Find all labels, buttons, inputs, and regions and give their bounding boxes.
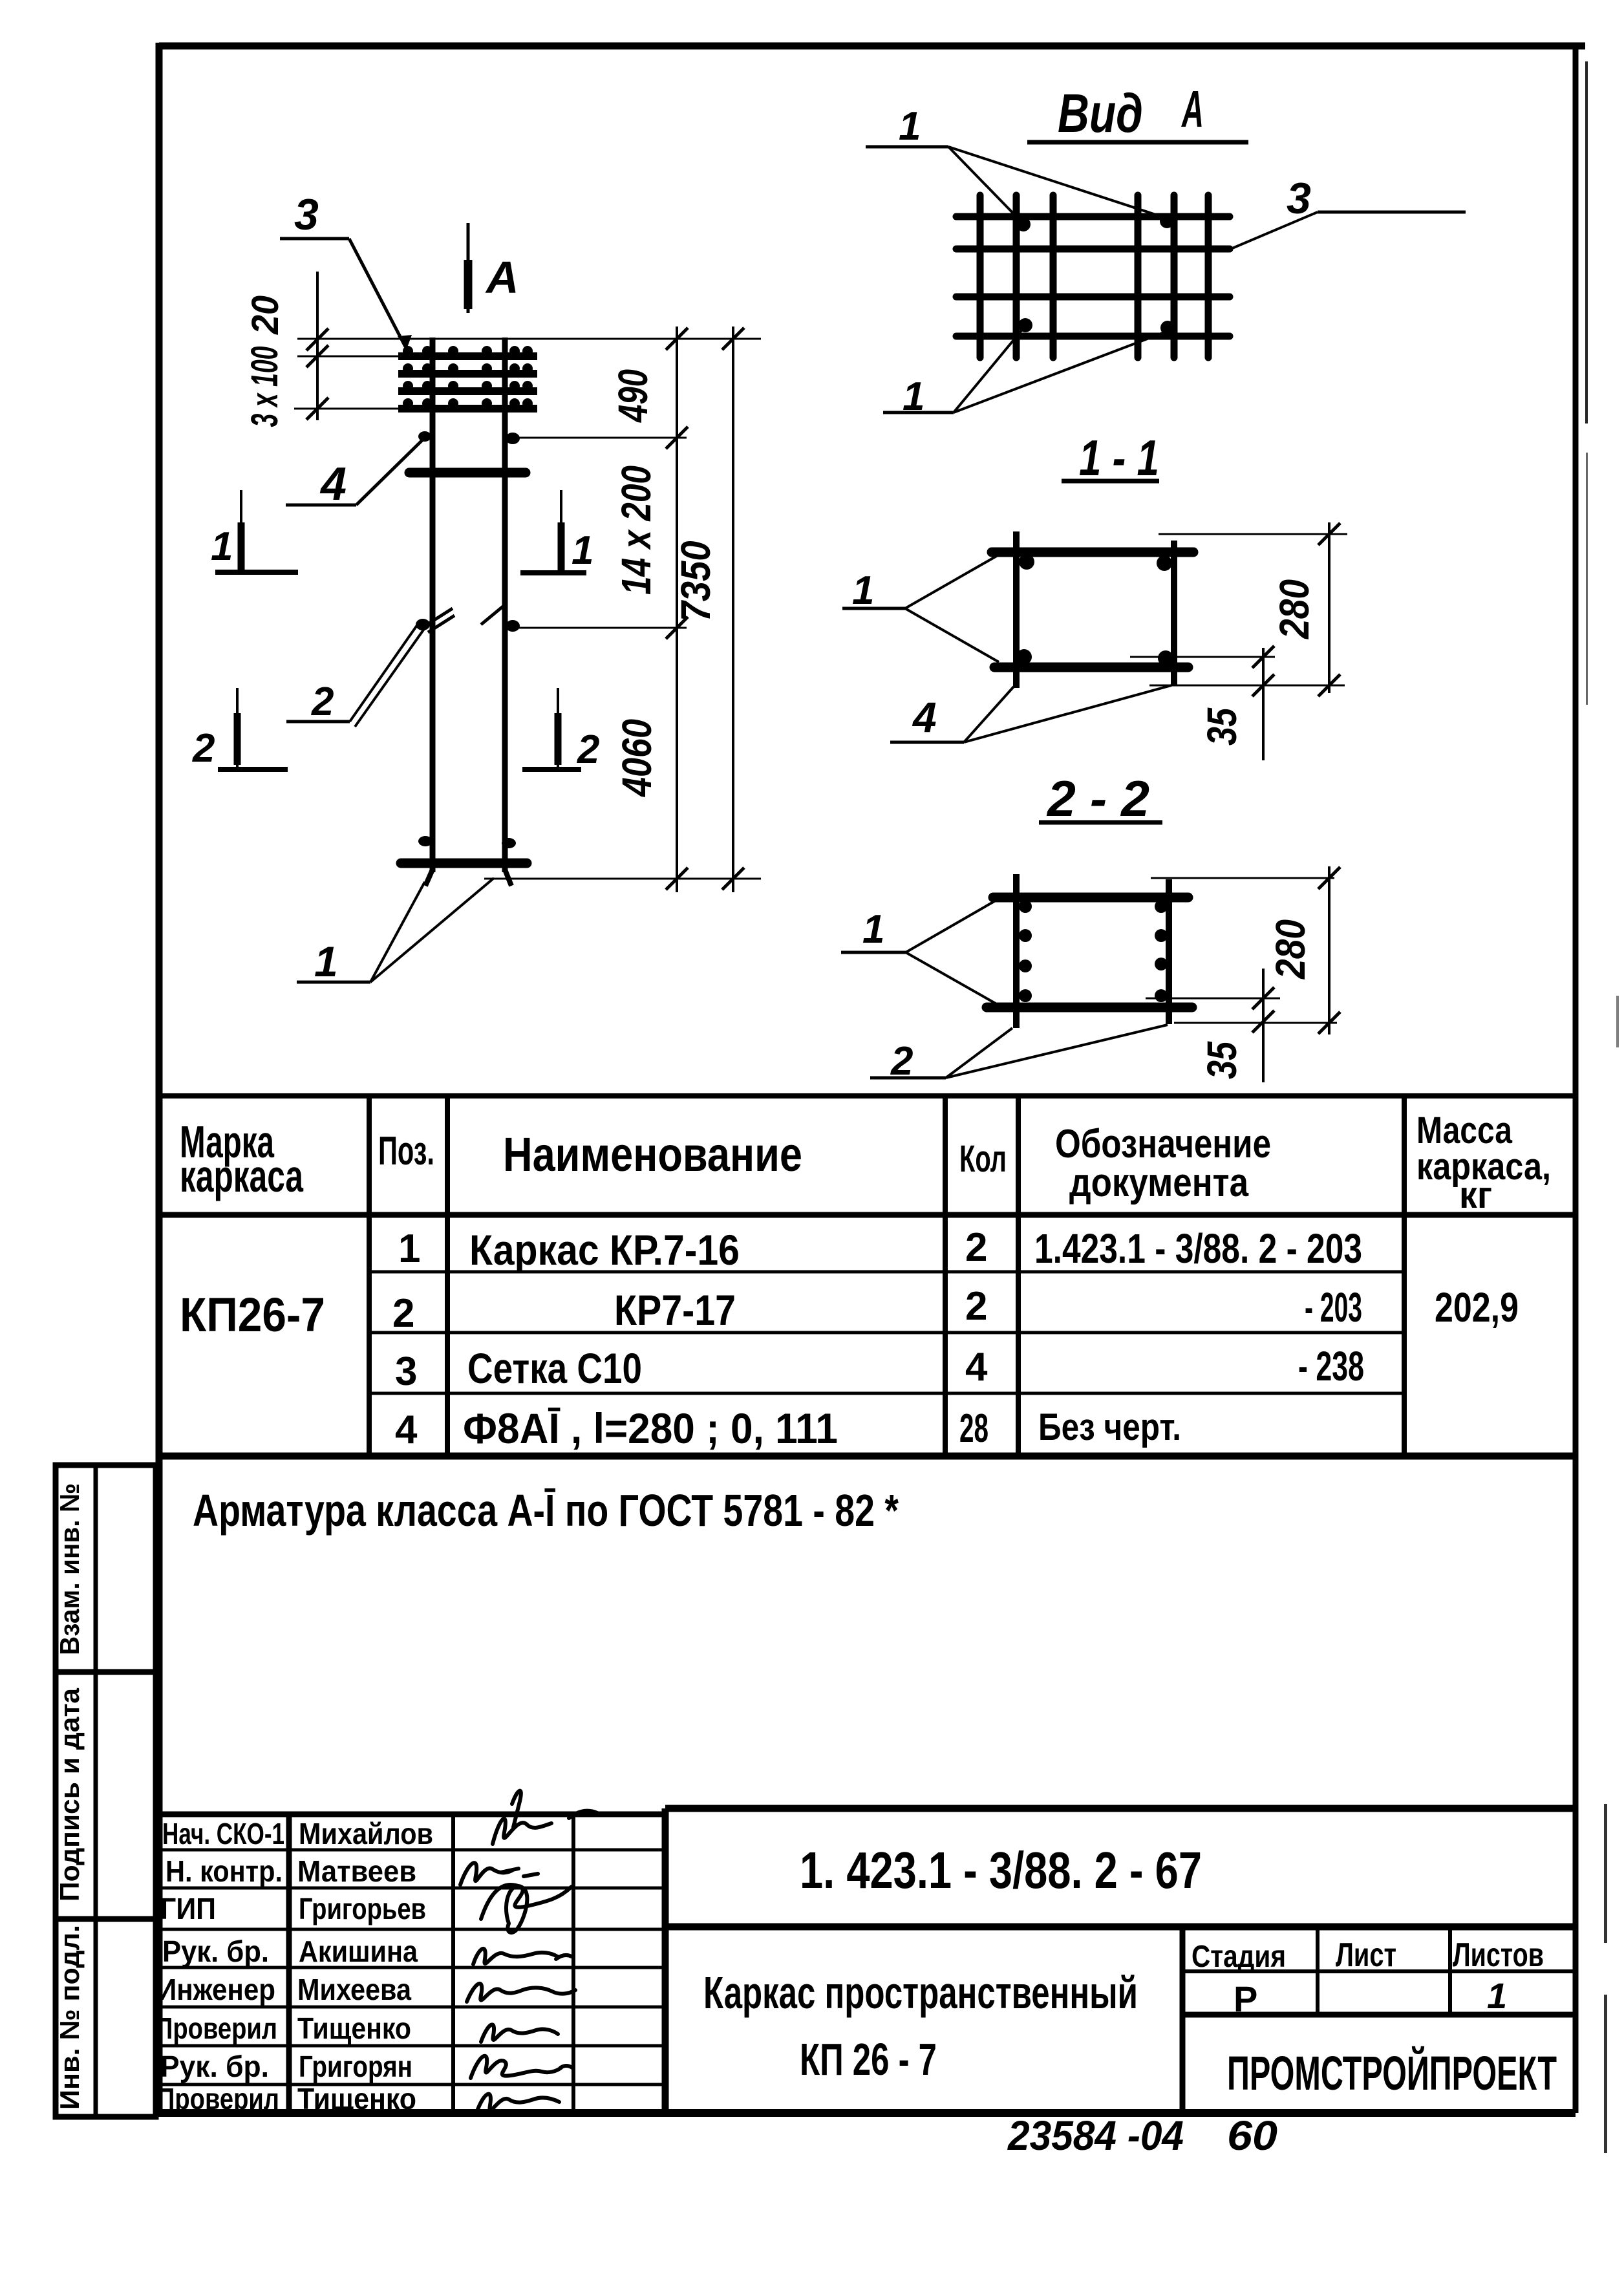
header ОБОЗНАЧЕНИЕ ДОКУМЕНТА: [1055, 1122, 1271, 1205]
header ПОЗ: [378, 1129, 434, 1174]
dim text 14x200: [613, 466, 659, 595]
view A leader pos.1 bottom: [883, 330, 1164, 419]
svg-text:1.423.1 - 3/88. 2 - 203: 1.423.1 - 3/88. 2 - 203: [1034, 1225, 1362, 1272]
extension line 490 bottom: [517, 437, 687, 439]
svg-text:Михеева: Михеева: [297, 1973, 411, 2006]
mesh C10 horizontal bar 4: [398, 398, 537, 409]
drawing sheet frame: [156, 43, 1585, 2113]
view A mesh horizontal wire 4: [956, 333, 1230, 340]
svg-text:Проверил: Проверил: [157, 2082, 279, 2116]
svg-text:ПРОМСТРОЙПРОЕКТ: ПРОМСТРОЙПРОЕКТ: [1227, 2046, 1557, 2100]
title block main boxes: [665, 1808, 1576, 2113]
svg-text:Сетка С10: Сетка С10: [467, 1344, 642, 1392]
view A mesh vertical wire 3: [1050, 195, 1057, 358]
svg-text:2: 2: [392, 1291, 414, 1336]
svg-text:Тищенко: Тищенко: [297, 2082, 416, 2116]
row 2 name: [614, 1286, 736, 1334]
svg-text:3: 3: [294, 190, 319, 239]
rebar cage elevation: longitudinal bar right: [505, 338, 511, 886]
view A mesh horizontal wire 2: [956, 246, 1230, 253]
dimension line 490 / 14x200 / 4060: [666, 327, 688, 892]
svg-text:КР7-17: КР7-17: [614, 1286, 736, 1334]
svg-text:Без черт.: Без черт.: [1038, 1406, 1181, 1448]
svg-text:А: А: [485, 252, 519, 303]
svg-text:Рук. бр.: Рук. бр.: [160, 2050, 269, 2083]
section 2-2 dim 280: [1151, 866, 1340, 1034]
header НАИМЕНОВАНИЕ: [503, 1128, 802, 1181]
svg-text:Подпись и дата: Подпись и дата: [54, 1688, 85, 1902]
stamp stage Р: [1234, 1978, 1257, 2019]
section 1-1 title: [1062, 429, 1159, 486]
extension line mesh bar4 left: [294, 408, 401, 410]
cell КП26-7: [180, 1288, 325, 1342]
svg-text:Р: Р: [1234, 1978, 1257, 2019]
view A mesh vertical wire 2: [1013, 195, 1020, 358]
svg-text:Н. контр.: Н. контр.: [166, 1854, 283, 1888]
section 2-2 top bar: [993, 893, 1188, 903]
svg-text:документа: документа: [1069, 1161, 1248, 1205]
svg-text:Обозначение: Обозначение: [1055, 1122, 1271, 1166]
svg-text:Акишина: Акишина: [299, 1935, 418, 1968]
section 2-2 leader pos.2: [870, 1025, 1168, 1084]
svg-text:2: 2: [965, 1225, 987, 1270]
svg-text:ГИП: ГИП: [160, 1892, 216, 1925]
header МАРКА КАРКАСА: [180, 1117, 304, 1201]
row 1 name: [469, 1226, 740, 1274]
svg-text:1: 1: [899, 104, 921, 149]
svg-text:Кол: Кол: [959, 1138, 1007, 1180]
title Каркас пространственный: [703, 1967, 1138, 2018]
extension line mesh bar1 left: [297, 356, 401, 358]
section 2-2 stirrup left leg: [1013, 874, 1020, 1028]
section 1-1 stirrup right leg: [1171, 541, 1177, 685]
svg-text:4: 4: [395, 1408, 418, 1452]
svg-text:3: 3: [395, 1349, 417, 1394]
extension line top: [297, 338, 761, 340]
sidebar boxes: [56, 1465, 156, 2117]
spec table outer and header lines: [159, 1096, 1576, 1456]
svg-text:Поз.: Поз.: [378, 1129, 434, 1174]
svg-text:2 - 2: 2 - 2: [1046, 770, 1149, 827]
svg-text:35: 35: [1199, 707, 1245, 745]
bottom tie crossbar: [401, 859, 527, 868]
svg-text:2: 2: [311, 680, 334, 724]
leader pos.3 mesh: [280, 190, 412, 349]
svg-text:Вид: Вид: [1058, 83, 1143, 144]
svg-text:кг: кг: [1459, 1174, 1492, 1216]
svg-text:- 238: - 238: [1298, 1343, 1364, 1389]
section 2-2 stirrup right leg: [1166, 879, 1172, 1024]
header КОЛ: [959, 1138, 1007, 1180]
doc designation values: [1034, 1225, 1364, 1448]
svg-text:1: 1: [314, 938, 338, 985]
svg-text:Инженер: Инженер: [157, 1973, 275, 2006]
svg-text:35: 35: [1199, 1041, 1245, 1079]
section mark 1 left: [211, 490, 298, 574]
svg-text:Рук. бр.: Рук. бр.: [162, 1935, 269, 1968]
svg-text:Тищенко: Тищенко: [297, 2011, 411, 2045]
section mark 2 right: [522, 688, 599, 772]
svg-text:490: 490: [610, 369, 656, 423]
upper tie crossbar pos.4: [409, 468, 526, 478]
view A mesh horizontal wire 1: [956, 213, 1230, 220]
spec table row lines: [369, 1272, 1404, 1393]
leader pos.4: [286, 439, 423, 510]
svg-text:Инв. № подл.: Инв. № подл.: [54, 1925, 85, 2110]
section 2-2 dim 35: [1146, 969, 1280, 1082]
rebar cage elevation: longitudinal bar left: [425, 338, 433, 886]
svg-text:Григорян: Григорян: [299, 2050, 412, 2083]
svg-text:Матвеев: Матвеев: [297, 1854, 416, 1888]
svg-text:2: 2: [577, 727, 599, 772]
mesh C10 horizontal bar 1: [398, 346, 537, 356]
section 1-1 stirrup left leg: [1013, 531, 1020, 688]
view A leader pos.1 top: [866, 104, 1164, 220]
pos numbers: [392, 1227, 420, 1452]
svg-text:А: А: [1181, 80, 1204, 138]
svg-text:Нач. СКО-1: Нач. СКО-1: [162, 1817, 284, 1850]
sidebar text ВЗАМ ИНВ №: [54, 1483, 85, 1655]
view A leader pos.3: [1232, 174, 1466, 248]
dim text 20: [244, 295, 286, 335]
dimension line 7350: [722, 327, 744, 892]
section 1-1 top bar: [992, 548, 1193, 557]
stamp sheets 1: [1487, 1975, 1507, 2016]
svg-text:- 203: - 203: [1305, 1284, 1362, 1331]
svg-text:7350: 7350: [672, 541, 719, 622]
view A mesh vertical wire 1: [977, 195, 984, 358]
svg-text:КП 26 - 7: КП 26 - 7: [800, 2034, 937, 2085]
extension line splice level: [517, 627, 687, 629]
lower bar end dots: [418, 836, 516, 848]
view A mesh horizontal wire 3: [956, 294, 1230, 301]
svg-text:1: 1: [862, 907, 884, 952]
dimension line 3x100,20: [306, 272, 328, 420]
qty values: [959, 1225, 988, 1451]
dim text 490: [610, 369, 656, 423]
dim text 7350: [672, 541, 719, 622]
svg-text:4060: 4060: [614, 719, 660, 798]
row 3 name: [467, 1344, 642, 1392]
view A arrow marker: [468, 223, 519, 313]
svg-text:Каркас пространственный: Каркас пространственный: [703, 1967, 1138, 2018]
stamp ПРОМСТРОЙПРОЕКТ: [1227, 2046, 1557, 2100]
svg-text:14 x 200: 14 x 200: [613, 466, 659, 595]
note armature class: [193, 1485, 899, 1536]
mass value 202,9: [1435, 1284, 1519, 1331]
svg-text:280: 280: [1271, 579, 1318, 639]
svg-text:23584 -04: 23584 -04: [1007, 2112, 1184, 2159]
svg-text:1: 1: [211, 524, 233, 569]
svg-text:60: 60: [1227, 2112, 1277, 2159]
sidebar text ИНВ № ПОДЛ: [54, 1925, 85, 2110]
svg-text:4: 4: [319, 458, 347, 510]
section 2-2 bottom bar: [987, 1003, 1192, 1013]
signature table role texts: [155, 1817, 284, 2116]
scan noise streaks: [1585, 61, 1619, 2153]
extension line bottom: [484, 878, 761, 880]
view A mesh vertical wire 5: [1171, 195, 1178, 358]
section 1-1 bottom bar: [994, 663, 1188, 672]
svg-text:каркаса: каркаса: [180, 1151, 304, 1201]
section 1-1 leader pos.1: [842, 555, 999, 662]
section 1-1 leader pos.4: [890, 685, 1171, 742]
leader pos.2: [286, 621, 425, 727]
signatures column squiggles: [460, 1791, 597, 2113]
svg-text:Наименование: Наименование: [503, 1128, 802, 1181]
sidebar text ПОДПИСЬ И ДАТА: [54, 1688, 85, 1902]
signature table name texts: [297, 1817, 433, 2116]
svg-text:1: 1: [1487, 1975, 1507, 2016]
svg-text:Ф8АĪ , l=280 ; 0, 111: Ф8АĪ , l=280 ; 0, 111: [463, 1404, 838, 1452]
svg-text:4: 4: [912, 693, 937, 741]
svg-text:2: 2: [965, 1284, 987, 1329]
document number 1.423.1-3/88.2-67: [800, 1841, 1202, 1899]
row 4 name: [463, 1404, 838, 1452]
svg-text:1 - 1: 1 - 1: [1079, 429, 1159, 486]
svg-text:1. 423.1 - 3/88. 2 - 67: 1. 423.1 - 3/88. 2 - 67: [800, 1841, 1202, 1899]
view A mesh vertical wire 6: [1205, 195, 1212, 358]
stamp ЛИСТ: [1336, 1936, 1396, 1974]
section 2-2 leader pos.1: [841, 899, 999, 1003]
svg-text:Листов: Листов: [1453, 1936, 1544, 1974]
title block signature table lines: [159, 1808, 665, 2113]
section 2-2 mesh wire dots left: [1019, 900, 1032, 1002]
mesh C10 horizontal bar 3: [398, 381, 537, 391]
svg-text:202,9: 202,9: [1435, 1284, 1519, 1331]
dim text 3x100: [244, 347, 286, 427]
svg-text:Проверил: Проверил: [155, 2011, 277, 2045]
leader pos.1 elevation: [297, 878, 494, 985]
view A title: [1027, 80, 1248, 144]
section 1-1 dim 35: [1130, 646, 1275, 760]
svg-text:Взам. инв. №: Взам. инв. №: [54, 1483, 85, 1655]
section 2-2 title: [1039, 770, 1162, 827]
svg-text:20: 20: [244, 295, 286, 335]
svg-text:4: 4: [965, 1345, 988, 1389]
view A mesh vertical wire 4: [1135, 195, 1142, 358]
mesh C10 horizontal bar 2: [398, 363, 537, 374]
svg-text:КП26-7: КП26-7: [180, 1288, 325, 1342]
lap splice marks and pos.2 bar start dots: [416, 606, 520, 632]
svg-text:3 x 100: 3 x 100: [244, 347, 286, 427]
svg-text:Лист: Лист: [1336, 1936, 1396, 1974]
section 1-1 dim 280: [1149, 522, 1347, 696]
svg-text:Каркас КР.7-16: Каркас КР.7-16: [469, 1226, 740, 1274]
svg-text:Михайлов: Михайлов: [299, 1817, 433, 1850]
section 2-2 mesh wire dots right: [1155, 900, 1168, 1002]
section mark 2 left: [192, 688, 288, 772]
spec table column lines: [369, 1096, 1404, 1456]
svg-text:Арматура класса А-Ī по ГОС: Арматура класса А-Ī по ГОСТ 5781 - 82 *: [193, 1485, 899, 1536]
svg-text:28: 28: [959, 1406, 988, 1451]
svg-text:1: 1: [398, 1227, 420, 1271]
svg-text:2: 2: [192, 726, 215, 771]
header МАССА КАРКАСА КГ: [1416, 1109, 1551, 1216]
stamp ЛИСТОВ: [1453, 1936, 1544, 1974]
svg-text:1: 1: [572, 528, 593, 573]
section 1-1 longitudinal bar dots: [1016, 554, 1173, 666]
pos.4 bar end dots on columns: [418, 431, 520, 444]
dim text 4060: [614, 719, 660, 798]
section mark 1 right: [520, 490, 593, 574]
handwritten archive number: [1007, 2112, 1277, 2159]
svg-text:Стадия: Стадия: [1191, 1940, 1286, 1974]
view A corner weld dots: [1016, 214, 1175, 335]
svg-text:280: 280: [1267, 919, 1314, 980]
svg-text:1: 1: [852, 568, 874, 613]
title КП 26-7: [800, 2034, 937, 2085]
stamp СТАДИЯ: [1191, 1940, 1286, 1974]
svg-text:Григорьев: Григорьев: [299, 1892, 426, 1925]
